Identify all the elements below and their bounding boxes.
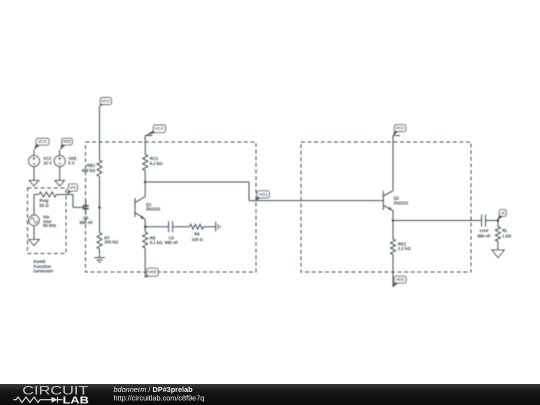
svg-text:0 V: 0 V — [68, 160, 74, 165]
svg-text:2.2 kΩ: 2.2 kΩ — [398, 246, 411, 251]
svg-text:680 nF: 680 nF — [80, 220, 94, 225]
svg-text:50 kHz: 50 kHz — [43, 223, 56, 228]
svg-text:VEE: VEE — [396, 277, 405, 282]
svg-text:5.1 kΩ: 5.1 kΩ — [150, 240, 163, 245]
svg-text:VCC: VCC — [101, 99, 111, 104]
svg-text:1 kΩ: 1 kΩ — [502, 233, 512, 238]
svg-text:2N2222: 2N2222 — [146, 207, 161, 212]
svg-text:Generator: Generator — [33, 269, 53, 274]
svg-text:LAB: LAB — [63, 395, 89, 405]
svg-text:100 Ω: 100 Ω — [192, 237, 204, 242]
svg-text:10 V: 10 V — [43, 160, 52, 165]
svg-text:200 kΩ: 200 kΩ — [104, 240, 118, 245]
svg-text:VEE: VEE — [148, 270, 157, 275]
svg-text:6.2 kΩ: 6.2 kΩ — [150, 161, 163, 166]
svg-text:VEE: VEE — [63, 139, 72, 144]
svg-text:498 kΩ: 498 kΩ — [81, 168, 95, 173]
svg-text:VCC: VCC — [38, 139, 48, 144]
svg-text:680 nF: 680 nF — [165, 240, 179, 245]
svg-text:VCC: VCC — [155, 126, 165, 131]
svg-text:VO1: VO1 — [259, 192, 268, 197]
svg-text:50 Ω: 50 Ω — [39, 203, 49, 208]
svg-text:http://circuitlab.com/c8f9e7q: http://circuitlab.com/c8f9e7q — [114, 393, 205, 402]
svg-text:vl: vl — [501, 210, 505, 215]
svg-text:2N2222: 2N2222 — [394, 201, 409, 206]
svg-text:680 nF: 680 nF — [477, 233, 491, 238]
svg-text:VI1: VI1 — [70, 185, 77, 190]
svg-text:VCC: VCC — [396, 126, 406, 131]
